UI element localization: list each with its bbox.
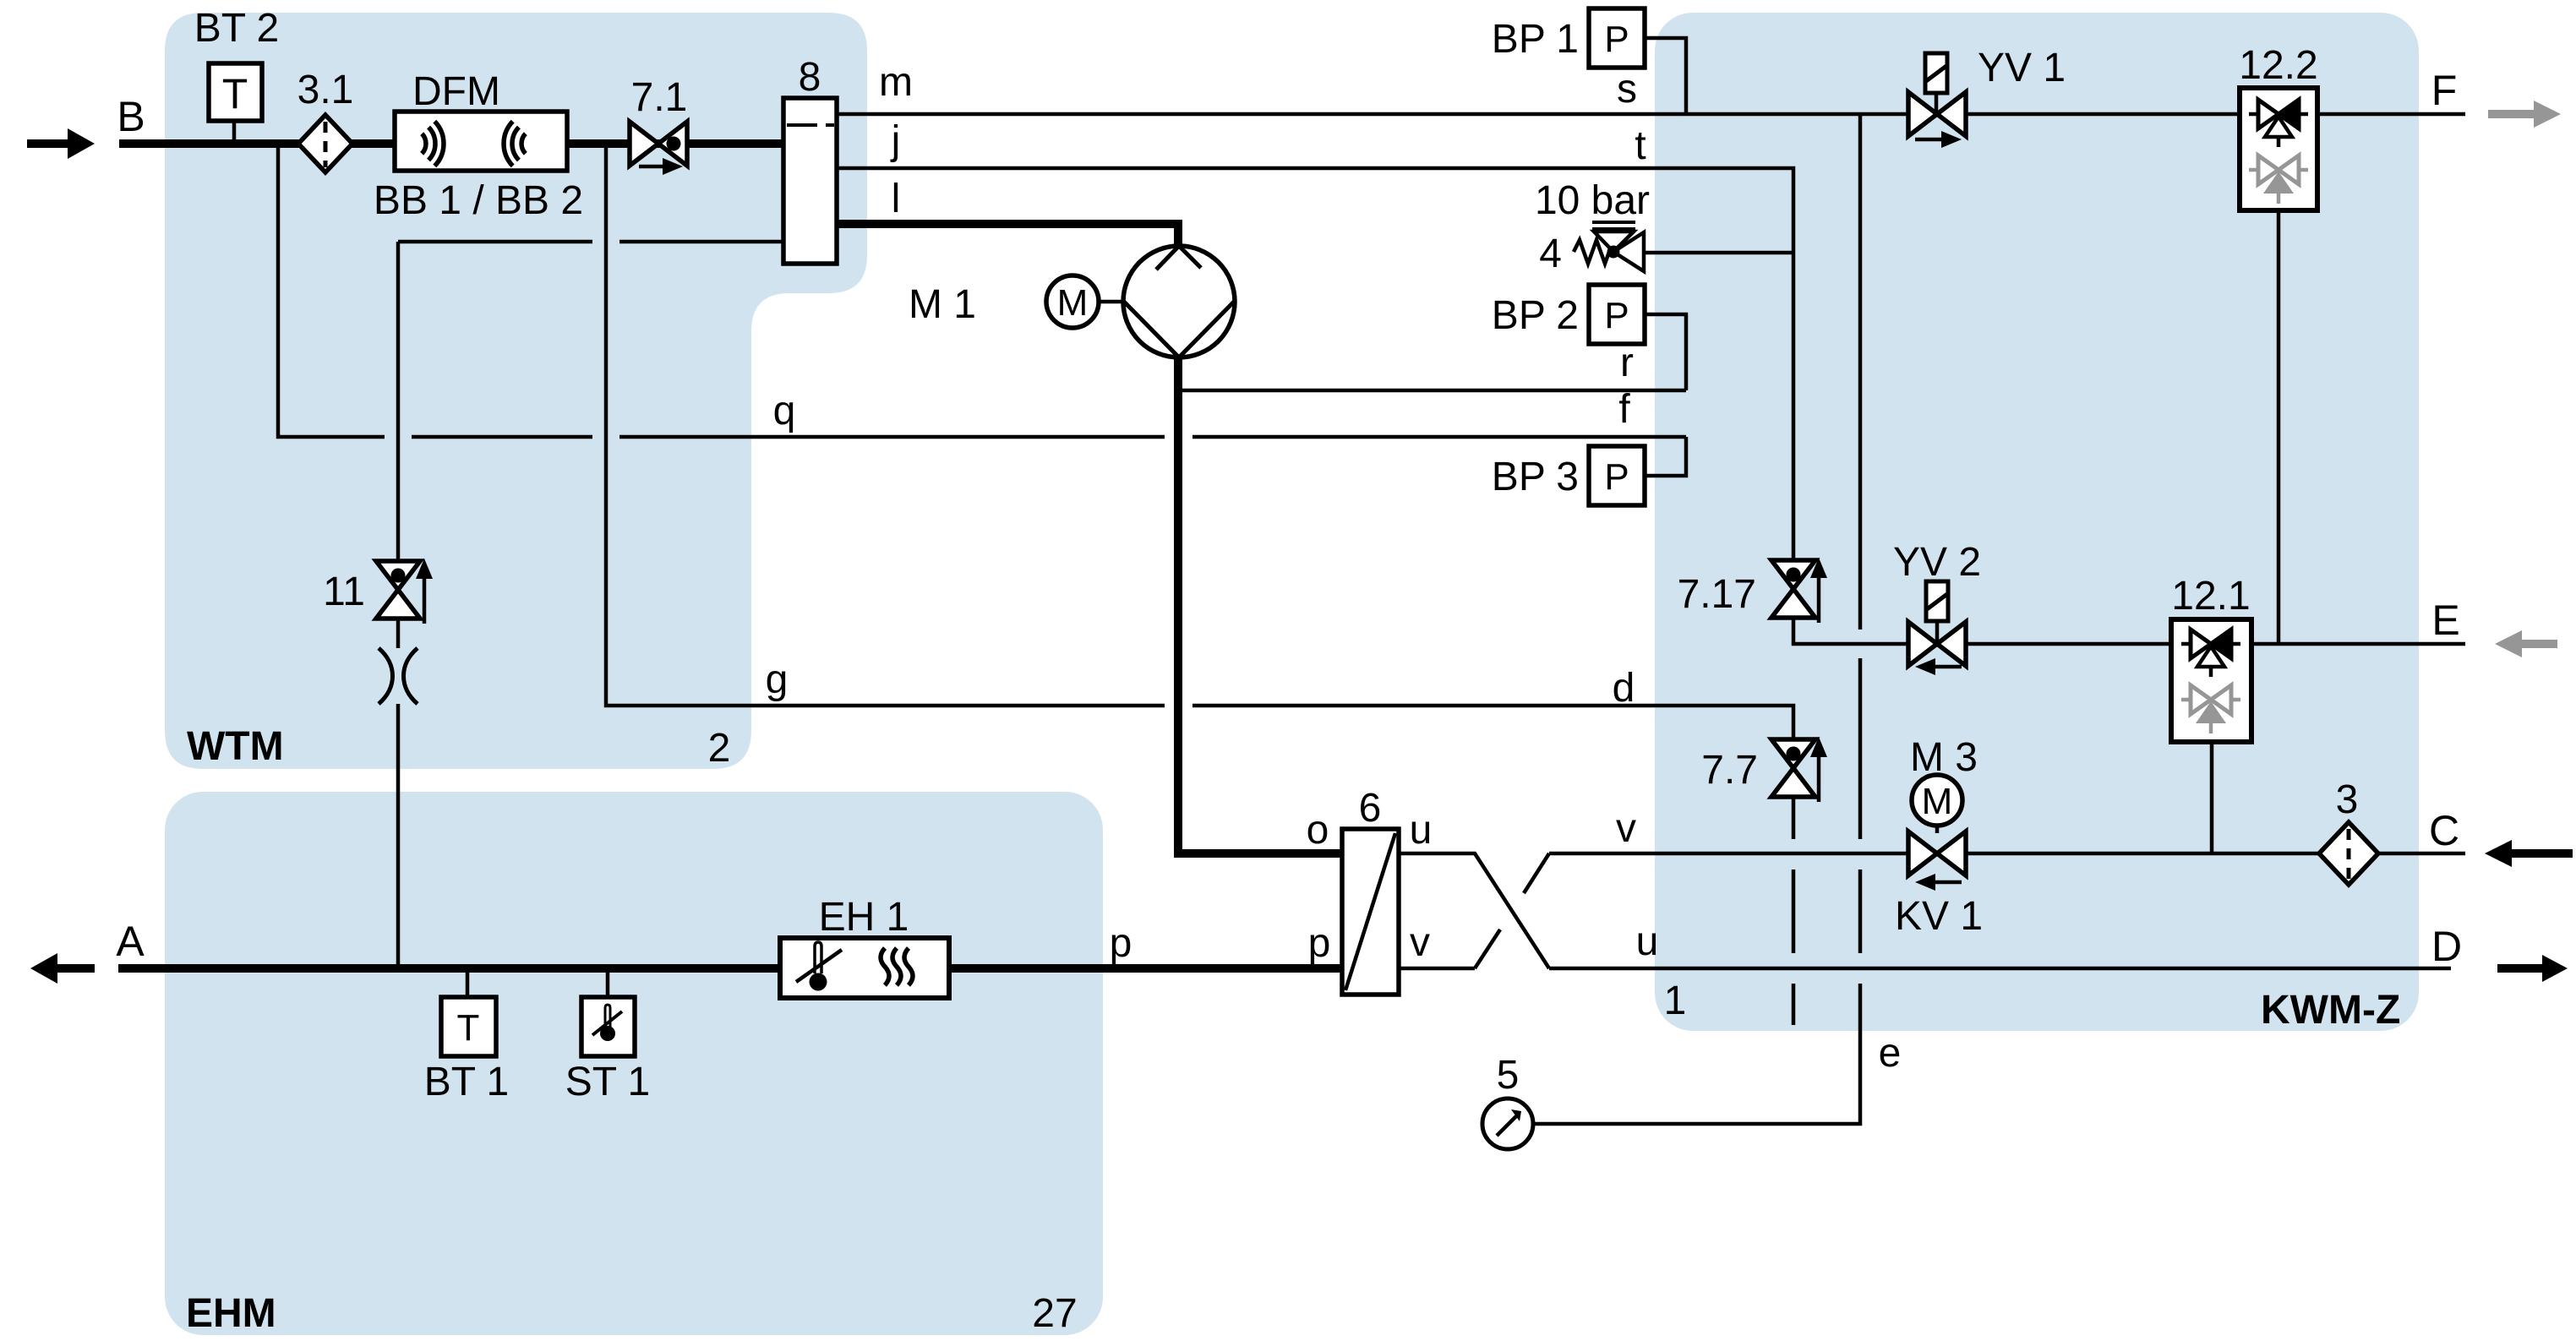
svg-text:v: v: [1616, 806, 1636, 851]
svg-text:EHM: EHM: [186, 1291, 276, 1336]
svg-text:M 1: M 1: [909, 282, 976, 327]
svg-text:D: D: [2431, 923, 2462, 970]
svg-text:BP 3: BP 3: [1492, 455, 1579, 499]
svg-text:P: P: [1604, 295, 1629, 336]
svg-text:1: 1: [1664, 978, 1687, 1023]
svg-text:C: C: [2429, 807, 2459, 854]
svg-text:KV 1: KV 1: [1895, 894, 1983, 939]
svg-text:7.1: 7.1: [631, 75, 688, 120]
svg-text:v: v: [1410, 920, 1430, 965]
svg-text:KWM-Z: KWM-Z: [2261, 988, 2400, 1033]
svg-text:o: o: [1307, 808, 1329, 853]
svg-text:l: l: [892, 177, 901, 221]
svg-text:r: r: [1620, 341, 1634, 385]
svg-text:BP 2: BP 2: [1492, 293, 1579, 338]
svg-text:T: T: [222, 70, 248, 117]
svg-text:WTM: WTM: [187, 724, 284, 769]
svg-text:M: M: [1922, 781, 1953, 822]
svg-text:E: E: [2431, 597, 2459, 644]
svg-text:BP 1: BP 1: [1492, 17, 1579, 62]
svg-text:s: s: [1617, 67, 1637, 112]
svg-text:3.1: 3.1: [297, 68, 354, 112]
svg-text:3: 3: [2336, 777, 2359, 822]
svg-text:EH 1: EH 1: [819, 895, 909, 940]
svg-text:11: 11: [323, 570, 365, 614]
svg-text:j: j: [890, 118, 901, 163]
svg-text:q: q: [773, 389, 796, 433]
svg-text:T: T: [457, 1007, 480, 1049]
svg-text:7.7: 7.7: [1701, 748, 1758, 793]
svg-text:4: 4: [1539, 232, 1562, 276]
svg-text:u: u: [1410, 808, 1433, 853]
svg-text:d: d: [1613, 666, 1635, 711]
svg-text:10 bar: 10 bar: [1535, 178, 1650, 223]
svg-text:m: m: [879, 60, 913, 105]
svg-text:BT 1: BT 1: [424, 1060, 510, 1104]
svg-text:6: 6: [1359, 786, 1382, 831]
svg-text:u: u: [1636, 919, 1659, 964]
svg-text:ST 1: ST 1: [565, 1060, 651, 1104]
svg-text:5: 5: [1497, 1053, 1520, 1098]
svg-text:YV 1: YV 1: [1978, 46, 2066, 90]
svg-text:YV 2: YV 2: [1893, 540, 1981, 585]
svg-text:12.1: 12.1: [2171, 574, 2250, 619]
svg-text:F: F: [2431, 67, 2458, 114]
svg-text:M 3: M 3: [1910, 735, 1978, 780]
svg-text:M: M: [1057, 282, 1089, 324]
svg-text:t: t: [1635, 123, 1645, 168]
svg-text:P: P: [1604, 19, 1629, 60]
svg-text:12.2: 12.2: [2239, 43, 2317, 88]
svg-text:8: 8: [799, 55, 821, 100]
svg-text:g: g: [766, 657, 789, 702]
svg-text:2: 2: [708, 726, 731, 771]
svg-text:p: p: [1110, 921, 1132, 966]
svg-text:7.17: 7.17: [1678, 572, 1756, 617]
svg-text:P: P: [1604, 456, 1629, 498]
svg-text:DFM: DFM: [412, 69, 500, 114]
svg-text:BT 2: BT 2: [194, 6, 280, 51]
svg-text:27: 27: [1032, 1291, 1077, 1336]
svg-text:A: A: [116, 918, 145, 965]
svg-text:f: f: [1618, 387, 1630, 432]
svg-text:BB 1 / BB 2: BB 1 / BB 2: [374, 178, 583, 223]
svg-text:p: p: [1308, 921, 1331, 966]
svg-text:B: B: [117, 93, 145, 140]
svg-text:e: e: [1879, 1031, 1902, 1076]
